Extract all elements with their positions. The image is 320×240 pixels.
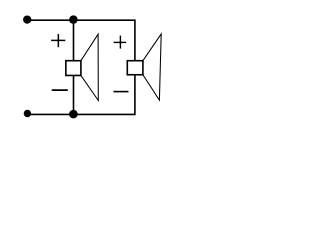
wire top rail and right top lead: [27, 20, 135, 61]
node junction top: [69, 15, 78, 24]
wire left speaker bottom lead: [73, 75, 75, 114]
speaker LS1 body: [66, 61, 81, 76]
speaker LS1 cone: [81, 34, 98, 100]
speaker LS1 plus label: [51, 34, 65, 47]
wire left speaker top lead: [73, 20, 75, 61]
node terminal bottom-left: [24, 110, 31, 117]
speaker LS2 cone: [143, 34, 161, 100]
speaker LS1 minus label: [52, 89, 68, 91]
node terminal top-left: [23, 15, 31, 23]
speaker LS2 plus label: [114, 36, 127, 49]
speaker LS2 minus label: [114, 91, 129, 93]
speaker LS2 body: [127, 61, 143, 75]
wire bottom rail and right bottom lead: [28, 75, 135, 115]
node junction bottom: [69, 110, 78, 119]
